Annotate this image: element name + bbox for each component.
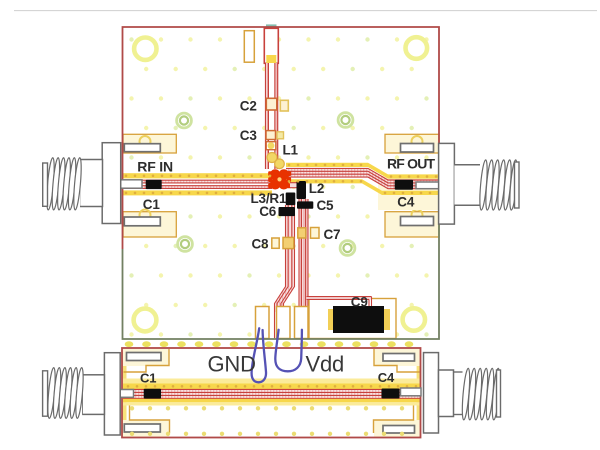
top edge tick: [266, 24, 277, 26]
bottom board footprint top-right: [374, 349, 420, 366]
svg-text:RF OUT: RF OUT: [387, 155, 436, 171]
capacitor C3: [266, 131, 276, 140]
capacitor C5: [297, 201, 313, 208]
RF OUT lower slot: [401, 217, 434, 226]
bottom pad P5: [295, 307, 309, 339]
capacitor C7 pads: [298, 228, 306, 238]
green annular ring right-lower: [340, 241, 355, 256]
RF IN lower pad circle: [140, 210, 151, 221]
svg-text:L2: L2: [309, 181, 324, 196]
SMA connector bottom-right : end cap: [497, 370, 501, 417]
SMA connector RF OUT : body: [439, 143, 455, 224]
corner mounting hole top-left: [134, 38, 156, 60]
capacitor C9 body: [333, 306, 384, 333]
SMA connector bottom-left : end cap: [43, 371, 48, 416]
jumper wire GND (hairpin): [252, 328, 266, 382]
svg-text:C4: C4: [378, 370, 395, 385]
green annular ring left-lower: [178, 237, 193, 252]
bottom board lower gold band: [123, 399, 420, 403]
bottom board upper band texture dots: [127, 385, 418, 388]
capacitor C2: [266, 98, 277, 110]
bright dot row between boards: [125, 341, 414, 347]
svg-text:C8: C8: [252, 236, 270, 251]
SMA connector bottom-left : pin: [110, 390, 134, 398]
svg-text:Vdd: Vdd: [306, 351, 345, 376]
capacitor C6: [279, 207, 296, 216]
SMA connector RF OUT : end cap: [515, 162, 520, 208]
RF OUT upper pad circle: [412, 136, 423, 147]
bottom board upper gold band: [123, 379, 420, 384]
C9 footprint zone: [309, 299, 396, 339]
band texture dots: [125, 164, 438, 195]
SMA connector RF IN : pin: [116, 180, 142, 188]
RF IN trace core: [123, 180, 273, 188]
bias trace right pair (to Vdd pad): [299, 199, 308, 311]
capacitor C1 (main board): [146, 180, 162, 189]
RF IN trace upper ground band: [123, 173, 273, 178]
svg-text:C9: C9: [351, 294, 368, 309]
top pad P1: [244, 31, 254, 63]
SMA connector bottom-right : pin: [401, 388, 422, 396]
svg-text:RF IN: RF IN: [137, 159, 173, 175]
SMA connector bottom-right : threads: [463, 368, 498, 420]
SMA connector RF IN : body: [102, 143, 121, 224]
SMA connector RF IN : threads: [47, 158, 81, 210]
RF IN connector footprint lower pad zone: [123, 212, 176, 237]
inductor L1 pads: [266, 142, 276, 150]
via stitching dot grid: [129, 37, 428, 336]
jumper wire Vdd (U shape): [275, 330, 302, 372]
bottom board dot rows: [130, 406, 404, 436]
svg-text:C7: C7: [324, 227, 341, 242]
svg-text:C4: C4: [397, 194, 415, 209]
main board substrate: [123, 27, 440, 339]
svg-text:L1: L1: [283, 143, 299, 158]
inductor/resistor L3/R1: [286, 193, 296, 206]
stub device to L2: [290, 183, 298, 188]
bottom pad GND (P3): [256, 307, 270, 339]
bottom board substrate: [122, 348, 421, 438]
RF OUT upper slot: [401, 144, 434, 153]
SMA connector RF IN : end cap: [43, 163, 48, 206]
RF IN upper pad circle: [140, 136, 151, 147]
bottom board footprint bottom-right: [374, 420, 420, 437]
RF OUT connector footprint upper pad zone: [385, 134, 439, 153]
main board outline (green lower): [123, 178, 440, 339]
SMA connector bottom-left : body: [104, 353, 120, 435]
bottom board footprint top-left: [123, 349, 169, 366]
SMA connector bottom-left : nut: [82, 375, 104, 415]
RF OUT lower pad circle: [412, 210, 423, 221]
SMA connector RF OUT : threads: [480, 160, 516, 210]
RF IN upper slot: [124, 144, 160, 152]
RF OUT trace upper ground band: [286, 163, 439, 179]
SMA connector bottom-right : nut: [439, 370, 454, 417]
capacitor C4 (main board): [395, 180, 413, 190]
svg-text:C1: C1: [143, 197, 161, 212]
capacitor C8 pads: [272, 238, 279, 248]
SMA connector bottom-left : threads: [48, 367, 83, 420]
trace to C9: [307, 297, 372, 300]
RF IN lower slot: [124, 217, 160, 226]
RF IN connector footprint upper pad zone: [123, 134, 176, 153]
bottom board outline: [122, 348, 421, 438]
vertical feed trace: [266, 63, 278, 169]
RF OUT trace core: [286, 168, 441, 188]
faint horizontal rule at top: [14, 10, 597, 12]
svg-text:C2: C2: [240, 98, 257, 113]
SMA connector RF IN : nut: [80, 160, 103, 207]
svg-text:C3: C3: [240, 128, 258, 143]
capacitor C1 (bottom board): [144, 389, 161, 399]
corner mounting hole bottom-right: [403, 308, 425, 330]
svg-text:GND: GND: [208, 351, 256, 376]
RF IN trace lower ground band: [123, 190, 273, 195]
corner mounting hole top-right: [406, 37, 428, 59]
svg-text:C5: C5: [317, 198, 335, 213]
C9 pad left: [328, 309, 334, 330]
bottom board footprint bottom-left: [123, 420, 169, 437]
corner mounting hole bottom-left: [134, 309, 157, 332]
bottom board trace core: [123, 389, 420, 398]
SMA connector RF OUT : pin: [416, 182, 442, 189]
capacitor C4 (bottom board): [382, 389, 400, 399]
bottom pad Vdd (P4): [277, 307, 291, 339]
C4 footprint pale zone: [378, 176, 438, 210]
main board outline (red upper): [123, 27, 440, 249]
amplifier device U1 pads: [268, 169, 291, 189]
C9 pad right: [384, 309, 390, 330]
RF OUT trace lower ground band: [286, 179, 439, 195]
bottom board edge strips: [123, 352, 127, 435]
RF OUT connector footprint lower pad zone: [385, 212, 439, 237]
SMA connector bottom-right : body: [424, 353, 439, 433]
top pad P2 (trace entry): [264, 28, 278, 63]
inductor L2: [297, 181, 307, 199]
bias trace left pair (to GND pad): [275, 205, 295, 312]
green annular ring right-upper: [338, 113, 353, 128]
green annular ring left-upper: [177, 113, 192, 128]
SMA connector RF OUT : nut: [454, 165, 481, 206]
svg-text:C6: C6: [259, 204, 277, 219]
svg-text:C1: C1: [140, 371, 156, 386]
